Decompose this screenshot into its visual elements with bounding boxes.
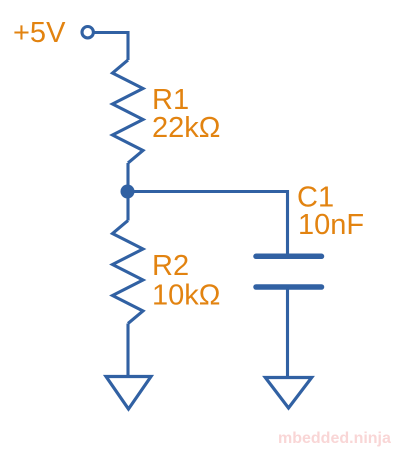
wire C1 bottom to ground	[286, 290, 289, 378]
ground symbol (right, under C1)	[265, 378, 311, 409]
svg-text:R2: R2	[152, 250, 189, 282]
ground symbol (left, under R2)	[106, 377, 151, 410]
svg-text:22kΩ: 22kΩ	[152, 112, 220, 144]
capacitor C1 bottom plate	[256, 284, 322, 290]
terminal circle (+5V pin)	[82, 27, 93, 38]
wire from +5V terminal to R1 top	[95, 33, 129, 61]
svg-text:+5V: +5V	[13, 17, 66, 49]
wire R1 bottom through node to R2 top	[126, 163, 129, 221]
capacitor C1 top plate	[256, 254, 322, 260]
wire node to C1 top	[128, 192, 288, 255]
resistor R2	[113, 221, 144, 324]
resistor R1	[113, 60, 144, 163]
svg-text:10kΩ: 10kΩ	[152, 280, 220, 312]
svg-text:10nF: 10nF	[298, 209, 364, 241]
svg-text:mbedded.ninja: mbedded.ninja	[278, 430, 391, 447]
node junction dot	[121, 185, 135, 199]
wire R2 bottom to ground	[126, 324, 129, 377]
